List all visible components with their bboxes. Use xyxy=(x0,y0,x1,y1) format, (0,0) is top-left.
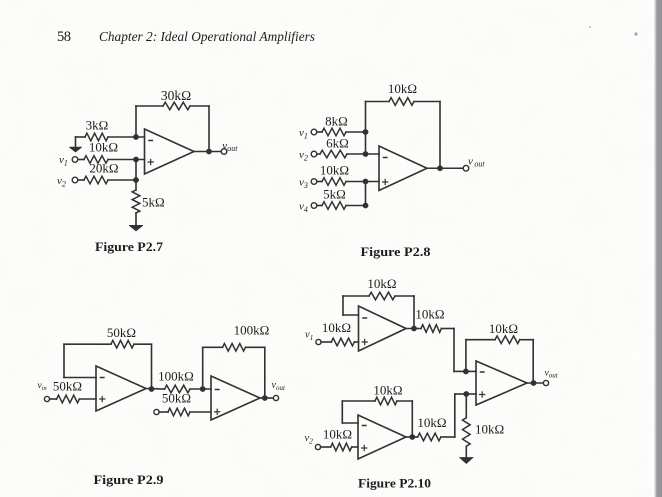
svg-text:30kΩ: 30kΩ xyxy=(161,88,191,103)
svg-text:Chapter 2: Ideal Operational A: Chapter 2: Ideal Operational Amplifiers xyxy=(99,29,315,44)
svg-text:3kΩ: 3kΩ xyxy=(86,118,109,133)
svg-text:58: 58 xyxy=(57,29,71,45)
svg-text:Figure P2.7: Figure P2.7 xyxy=(95,240,163,254)
svg-text:6kΩ: 6kΩ xyxy=(326,136,349,151)
svg-text:20kΩ: 20kΩ xyxy=(89,161,118,176)
svg-text:10kΩ: 10kΩ xyxy=(489,321,518,336)
svg-text:10kΩ: 10kΩ xyxy=(475,422,504,437)
svg-text:5kΩ: 5kΩ xyxy=(142,195,165,210)
svg-text:50kΩ: 50kΩ xyxy=(53,379,82,394)
svg-text:10kΩ: 10kΩ xyxy=(323,427,352,442)
svg-text:100kΩ: 100kΩ xyxy=(158,369,194,384)
svg-text:10kΩ: 10kΩ xyxy=(320,163,349,178)
svg-text:10kΩ: 10kΩ xyxy=(373,383,402,398)
svg-text:8kΩ: 8kΩ xyxy=(325,114,348,129)
svg-text:5kΩ: 5kΩ xyxy=(323,187,346,202)
svg-text:Figure P2.8: Figure P2.8 xyxy=(361,245,431,259)
svg-text:50kΩ: 50kΩ xyxy=(107,325,136,340)
svg-text:10kΩ: 10kΩ xyxy=(322,320,351,335)
svg-text:100kΩ: 100kΩ xyxy=(234,323,270,338)
svg-text:Figure P2.10: Figure P2.10 xyxy=(358,477,431,491)
svg-text:10kΩ: 10kΩ xyxy=(367,276,396,291)
svg-text:10kΩ: 10kΩ xyxy=(415,307,444,322)
svg-text:10kΩ: 10kΩ xyxy=(417,415,446,430)
svg-text:10kΩ: 10kΩ xyxy=(89,140,118,155)
svg-text:10kΩ: 10kΩ xyxy=(388,81,417,96)
svg-text:Figure P2.9: Figure P2.9 xyxy=(94,473,164,487)
svg-text:50kΩ: 50kΩ xyxy=(162,391,191,406)
